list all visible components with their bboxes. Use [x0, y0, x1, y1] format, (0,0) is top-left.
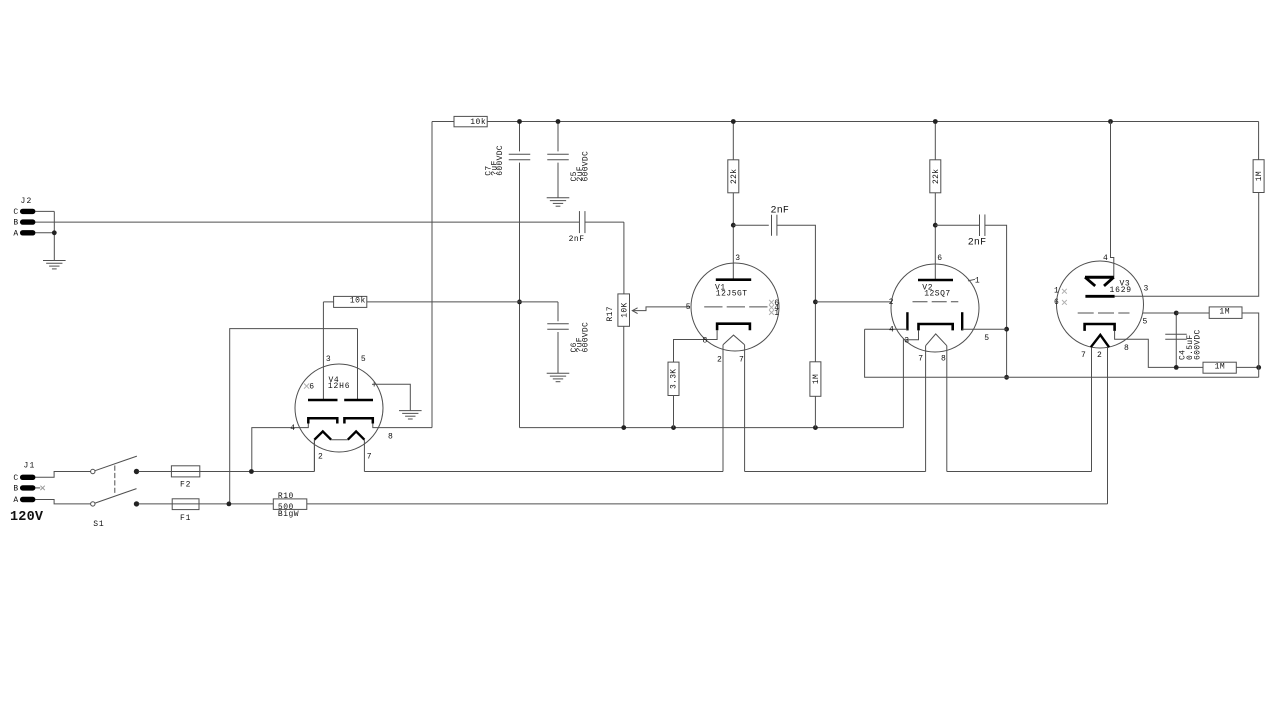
svg-text:BigW: BigW	[278, 510, 299, 519]
svg-text:B: B	[13, 484, 18, 493]
svg-text:1M: 1M	[812, 374, 821, 384]
svg-text:7: 7	[918, 355, 923, 364]
svg-text:6: 6	[309, 382, 314, 391]
svg-text:J2: J2	[21, 197, 33, 206]
svg-text:12H6: 12H6	[328, 382, 350, 391]
svg-text:3: 3	[1144, 284, 1149, 293]
svg-text:6: 6	[937, 254, 942, 263]
svg-text:J1: J1	[24, 462, 36, 471]
svg-text:1M: 1M	[1219, 308, 1230, 317]
svg-text:3: 3	[735, 254, 740, 263]
svg-text:C: C	[13, 474, 18, 483]
svg-text:2: 2	[318, 452, 323, 461]
svg-text:F1: F1	[180, 514, 191, 523]
svg-text:8: 8	[388, 432, 393, 441]
svg-text:8: 8	[703, 336, 708, 345]
svg-text:C: C	[13, 208, 18, 217]
svg-text:22k: 22k	[730, 169, 739, 184]
svg-text:1: 1	[774, 309, 779, 318]
svg-text:3.3K: 3.3K	[670, 369, 679, 389]
svg-text:1M: 1M	[1255, 171, 1264, 181]
svg-text:1: 1	[1054, 287, 1059, 296]
svg-text:7: 7	[367, 452, 372, 461]
svg-text:12SQ7: 12SQ7	[924, 290, 951, 299]
svg-text:4: 4	[1103, 254, 1108, 263]
svg-text:12J5GT: 12J5GT	[716, 290, 748, 299]
svg-text:4: 4	[290, 424, 295, 433]
svg-text:2nF: 2nF	[569, 235, 585, 244]
svg-text:10k: 10k	[470, 118, 486, 127]
svg-text:4: 4	[889, 326, 894, 335]
svg-text:1629: 1629	[1110, 286, 1132, 295]
svg-text:3: 3	[326, 355, 331, 364]
svg-text:5: 5	[984, 334, 989, 343]
svg-text:2: 2	[889, 298, 894, 307]
svg-text:R17: R17	[606, 306, 615, 321]
svg-text:5: 5	[686, 303, 691, 312]
svg-text:120V: 120V	[10, 510, 44, 525]
svg-text:8: 8	[941, 355, 946, 364]
svg-text:A: A	[13, 496, 18, 505]
svg-text:7: 7	[1081, 351, 1086, 360]
svg-text:6: 6	[1054, 298, 1059, 307]
svg-text:2: 2	[1097, 351, 1102, 360]
svg-text:R10: R10	[278, 492, 294, 501]
svg-text:10k: 10k	[350, 296, 366, 305]
svg-text:7: 7	[739, 356, 744, 365]
svg-text:5: 5	[361, 355, 366, 364]
svg-text:2nF: 2nF	[771, 206, 790, 217]
svg-text:1: 1	[975, 277, 980, 286]
svg-text:3: 3	[904, 336, 909, 345]
svg-text:22k: 22k	[932, 169, 941, 184]
svg-text:10K: 10K	[620, 302, 629, 317]
svg-text:5: 5	[1143, 318, 1148, 327]
svg-text:F2: F2	[180, 481, 191, 490]
svg-text:A: A	[13, 229, 18, 238]
svg-text:1M: 1M	[1215, 362, 1226, 371]
svg-text:2nF: 2nF	[968, 238, 987, 249]
svg-text:S1: S1	[93, 520, 104, 529]
svg-text:B: B	[13, 219, 18, 228]
svg-text:8: 8	[1124, 344, 1129, 353]
svg-text:2: 2	[717, 356, 722, 365]
